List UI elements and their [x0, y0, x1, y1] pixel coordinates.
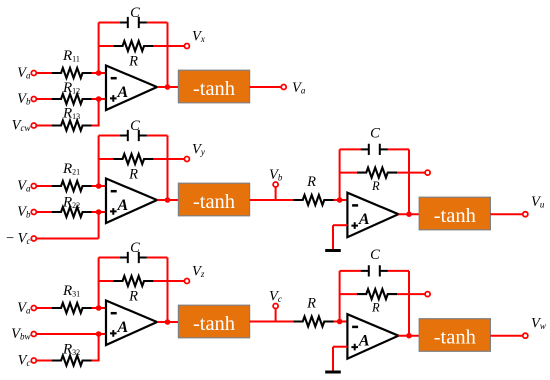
- svg-text:C: C: [130, 5, 140, 21]
- svg-text:R: R: [371, 301, 380, 315]
- svg-text:C: C: [130, 240, 140, 256]
- svg-text:A: A: [358, 211, 370, 228]
- svg-text:C: C: [370, 125, 380, 141]
- svg-text:A: A: [358, 333, 370, 350]
- svg-text:R: R: [306, 174, 316, 190]
- svg-text:R: R: [128, 54, 138, 70]
- svg-text:-tanh: -tanh: [193, 78, 235, 100]
- svg-text:R: R: [306, 296, 316, 312]
- svg-text:-tanh: -tanh: [193, 191, 235, 213]
- svg-text:A: A: [117, 319, 129, 336]
- svg-text:R: R: [128, 167, 138, 183]
- svg-text:-tanh: -tanh: [434, 205, 476, 227]
- svg-text:-tanh: -tanh: [193, 313, 235, 335]
- svg-text:A: A: [117, 197, 129, 214]
- svg-text:C: C: [130, 118, 140, 134]
- svg-text:C: C: [370, 247, 380, 263]
- svg-text:-tanh: -tanh: [434, 327, 476, 349]
- svg-text:R: R: [371, 179, 380, 193]
- svg-text:A: A: [117, 84, 129, 101]
- svg-text:R: R: [128, 289, 138, 305]
